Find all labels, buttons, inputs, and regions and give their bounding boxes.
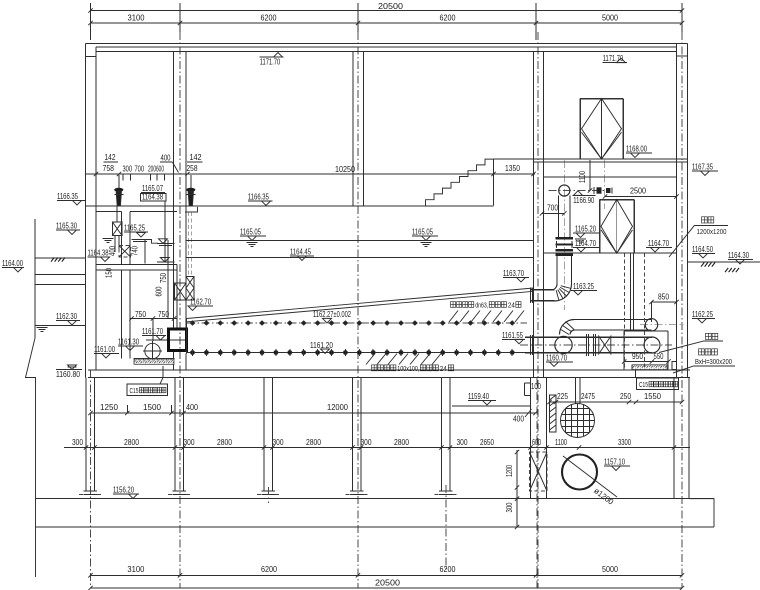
svg-text:142: 142 xyxy=(105,153,116,162)
svg-text:12000: 12000 xyxy=(327,403,349,412)
svg-text:142: 142 xyxy=(190,153,202,162)
svg-text:1162.70: 1162.70 xyxy=(190,298,211,307)
svg-text:1161.00: 1161.00 xyxy=(94,345,115,354)
svg-text:1165.30: 1165.30 xyxy=(56,222,77,231)
svg-text:1164.70: 1164.70 xyxy=(575,239,596,248)
svg-text:6200: 6200 xyxy=(440,565,456,574)
svg-text:5000: 5000 xyxy=(602,565,618,574)
svg-text:1167.35: 1167.35 xyxy=(692,163,713,172)
svg-text:1100: 1100 xyxy=(578,171,587,183)
svg-text:750: 750 xyxy=(159,273,168,283)
svg-text:2475: 2475 xyxy=(581,392,595,401)
svg-text:1163.25: 1163.25 xyxy=(573,282,594,291)
svg-text:2500: 2500 xyxy=(630,187,646,196)
svg-text:24: 24 xyxy=(440,366,447,373)
svg-text:6200: 6200 xyxy=(440,14,456,23)
svg-text:150: 150 xyxy=(105,268,114,278)
svg-text:740: 740 xyxy=(131,246,140,256)
svg-text:1159.40: 1159.40 xyxy=(468,392,489,401)
svg-text:1162.27±0.002: 1162.27±0.002 xyxy=(313,310,351,319)
svg-text:2800: 2800 xyxy=(124,438,139,447)
svg-text:700: 700 xyxy=(135,165,145,174)
svg-text:5000: 5000 xyxy=(602,14,618,23)
svg-text:1200: 1200 xyxy=(505,465,514,477)
svg-text:600: 600 xyxy=(532,438,541,447)
svg-text:758: 758 xyxy=(103,164,115,173)
svg-text:1166.35: 1166.35 xyxy=(57,192,78,201)
svg-text:1500: 1500 xyxy=(143,403,162,412)
svg-text:24: 24 xyxy=(508,302,515,309)
svg-text:3100: 3100 xyxy=(128,14,146,23)
svg-text:1160.80: 1160.80 xyxy=(56,370,80,379)
svg-text:400: 400 xyxy=(108,246,117,256)
svg-text:1165.05: 1165.05 xyxy=(412,228,433,237)
svg-text:300: 300 xyxy=(361,438,372,447)
svg-text:225: 225 xyxy=(557,392,568,401)
svg-text:258: 258 xyxy=(187,164,198,173)
svg-text:100x100,: 100x100, xyxy=(397,366,419,373)
svg-text:300: 300 xyxy=(457,438,468,447)
svg-text:1168.00: 1168.00 xyxy=(626,145,647,154)
svg-text:1164.30: 1164.30 xyxy=(728,251,749,260)
svg-text:1550: 1550 xyxy=(644,392,662,401)
svg-text:600: 600 xyxy=(155,286,164,296)
svg-text:300: 300 xyxy=(273,438,284,447)
svg-text:1100: 1100 xyxy=(555,438,567,447)
svg-text:400: 400 xyxy=(161,154,171,163)
svg-text:1164.00: 1164.00 xyxy=(2,259,23,268)
svg-text:400: 400 xyxy=(513,415,524,424)
svg-text:20500: 20500 xyxy=(378,2,404,11)
svg-text:10250: 10250 xyxy=(335,165,355,174)
svg-text:400: 400 xyxy=(186,403,198,412)
svg-text:1171.70: 1171.70 xyxy=(260,58,281,67)
svg-text:100: 100 xyxy=(531,382,541,391)
svg-text:1161.30: 1161.30 xyxy=(118,338,139,347)
svg-text:1161.55: 1161.55 xyxy=(502,331,523,340)
svg-text:3100: 3100 xyxy=(127,565,145,574)
svg-text:20500: 20500 xyxy=(375,579,401,588)
svg-text:1165.20: 1165.20 xyxy=(575,225,596,234)
svg-text:1164.70: 1164.70 xyxy=(648,239,669,248)
svg-text:950: 950 xyxy=(632,352,643,361)
svg-text:1171.70: 1171.70 xyxy=(603,54,624,63)
svg-text:250: 250 xyxy=(620,392,631,401)
svg-text:1163.70: 1163.70 xyxy=(503,269,524,278)
svg-text:600: 600 xyxy=(156,165,164,174)
svg-text:C15: C15 xyxy=(639,382,648,389)
svg-text:BxH=300x200: BxH=300x200 xyxy=(695,359,732,366)
svg-text:1162.30: 1162.30 xyxy=(56,312,77,321)
svg-text:700: 700 xyxy=(547,204,558,213)
svg-text:300: 300 xyxy=(72,438,83,447)
svg-text:1165.25: 1165.25 xyxy=(124,224,145,233)
svg-text:550: 550 xyxy=(654,352,664,361)
svg-text:1164.38: 1164.38 xyxy=(88,249,109,258)
svg-text:C15: C15 xyxy=(130,388,139,395)
svg-text:1200x1200: 1200x1200 xyxy=(697,229,727,236)
svg-text:300: 300 xyxy=(184,438,195,447)
svg-text:850: 850 xyxy=(658,293,669,302)
svg-text:2800: 2800 xyxy=(217,438,232,447)
svg-text:1350: 1350 xyxy=(505,164,520,173)
svg-text:1166.35: 1166.35 xyxy=(248,193,269,202)
svg-text:2650: 2650 xyxy=(480,438,494,447)
svg-text:1162.25: 1162.25 xyxy=(692,310,713,319)
svg-text:6200: 6200 xyxy=(261,14,277,23)
svg-text:2800: 2800 xyxy=(394,438,409,447)
svg-text:dn63,: dn63, xyxy=(475,302,488,309)
svg-text:1250: 1250 xyxy=(100,403,119,412)
svg-text:750: 750 xyxy=(135,310,146,319)
svg-text:1157.10: 1157.10 xyxy=(604,458,625,467)
svg-text:1164.50: 1164.50 xyxy=(692,245,713,254)
svg-text:300: 300 xyxy=(123,165,133,174)
svg-text:3300: 3300 xyxy=(618,438,631,447)
svg-text:1165.05: 1165.05 xyxy=(240,228,261,237)
svg-text:1166.90: 1166.90 xyxy=(573,196,594,205)
svg-text:6200: 6200 xyxy=(261,565,277,574)
svg-text:2800: 2800 xyxy=(306,438,321,447)
svg-text:1164.45: 1164.45 xyxy=(290,248,311,257)
svg-text:1156.20: 1156.20 xyxy=(113,486,134,495)
svg-text:300: 300 xyxy=(505,502,514,512)
svg-text:1160.70: 1160.70 xyxy=(546,354,567,363)
svg-text:1161.70: 1161.70 xyxy=(142,327,163,336)
svg-text:750: 750 xyxy=(158,310,169,319)
